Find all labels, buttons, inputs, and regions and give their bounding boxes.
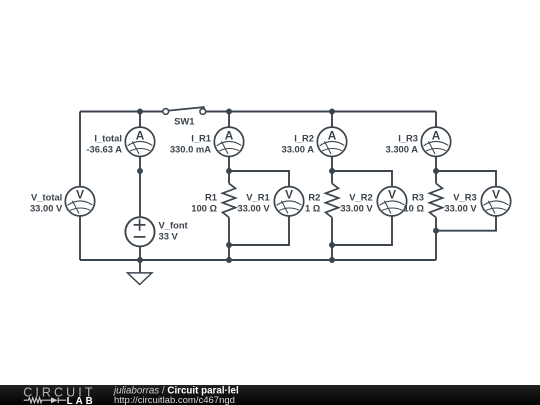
svg-text:LAB: LAB — [67, 396, 96, 405]
svg-text:http://circuitlab.com/c467ngd: http://circuitlab.com/c467ngd — [114, 395, 235, 405]
